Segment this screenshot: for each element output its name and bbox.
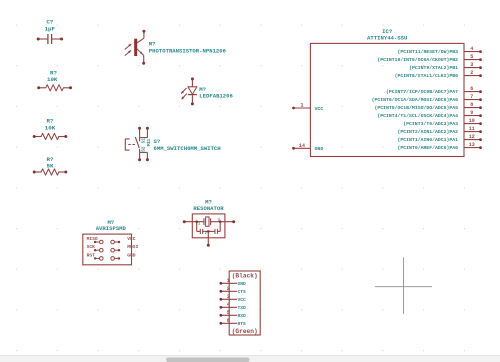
svg-text:(PCINT5/OC1B/MISO/DO/ADC5)PA5: (PCINT5/OC1B/MISO/DO/ADC5)PA5 [375, 105, 459, 111]
svg-text:RESONATOR: RESONATOR [193, 205, 224, 212]
svg-text:VCC: VCC [315, 106, 324, 112]
svg-text:13: 13 [469, 142, 475, 148]
svg-text:R?: R? [47, 117, 54, 124]
svg-text:TXD: TXD [238, 305, 247, 311]
svg-text:1µF: 1µF [45, 25, 56, 32]
svg-text:MOSI: MOSI [127, 244, 138, 250]
svg-text:3: 3 [227, 294, 230, 300]
svg-text:(PCINT11/RESET/DW)PB3: (PCINT11/RESET/DW)PB3 [398, 49, 459, 55]
svg-text:12: 12 [469, 134, 475, 140]
svg-text:(PCINT9/XTAL2)PB1: (PCINT9/XTAL2)PB1 [409, 65, 458, 71]
svg-text:RST: RST [87, 252, 96, 258]
svg-text:6: 6 [227, 318, 230, 324]
svg-text:(PCINT7/ICP/OC0B/ADC7)PA7: (PCINT7/ICP/OC0B/ADC7)PA7 [386, 89, 458, 95]
svg-text:(PCINT10/INT0/OC0A/CKOUT)PB2: (PCINT10/INT0/OC0A/CKOUT)PB2 [377, 57, 458, 63]
svg-text:7: 7 [470, 94, 473, 100]
svg-text:3: 3 [470, 62, 473, 68]
svg-text:(PCINT3/T0/ADC3)PA3: (PCINT3/T0/ADC3)PA3 [403, 121, 458, 127]
svg-text:1: 1 [227, 278, 230, 284]
svg-text:(PCINT8/XTAL1/CLKI)PB0: (PCINT8/XTAL1/CLKI)PB0 [395, 73, 458, 79]
svg-text:6: 6 [470, 86, 473, 92]
svg-text:GND: GND [127, 252, 136, 258]
svg-text:5: 5 [470, 54, 473, 60]
svg-text:VCC: VCC [127, 236, 136, 242]
svg-text:(PCINT2/AIN1/ADC2)PA2: (PCINT2/AIN1/ADC2)PA2 [398, 129, 459, 135]
svg-text:(PCINT1/AIN0/ADC1)PA1: (PCINT1/AIN0/ADC1)PA1 [398, 137, 459, 143]
svg-text:CTS: CTS [238, 289, 247, 295]
svg-text:10K: 10K [45, 124, 56, 131]
svg-text:9: 9 [470, 110, 473, 116]
svg-text:2: 2 [227, 286, 230, 292]
svg-text:RXD: RXD [238, 313, 247, 319]
svg-text:3: 3 [218, 219, 220, 223]
svg-text:5: 5 [227, 310, 230, 316]
svg-text:P$1: P$1 [147, 138, 152, 146]
svg-text:LEDFAB1206: LEDFAB1206 [199, 92, 233, 99]
svg-text:(Green): (Green) [232, 328, 258, 335]
svg-text:(PCINT6/OC1A/SDA/MOSI/ADC6)PA6: (PCINT6/OC1A/SDA/MOSI/ADC6)PA6 [372, 97, 458, 103]
svg-text:S2: S2 [143, 146, 147, 152]
svg-text:2: 2 [205, 232, 207, 236]
svg-text:GND: GND [238, 281, 247, 287]
svg-text:AVRISPSMD: AVRISPSMD [96, 225, 127, 232]
svg-text:RTS: RTS [238, 321, 247, 327]
svg-text:GND: GND [315, 146, 324, 152]
svg-text:(PCINT0/AREF/ADC0)PA0: (PCINT0/AREF/ADC0)PA0 [398, 145, 459, 151]
svg-text:1: 1 [300, 103, 303, 109]
svg-text:10: 10 [469, 118, 475, 124]
svg-text:1: 1 [198, 223, 200, 227]
svg-text:8: 8 [470, 102, 473, 108]
svg-text:SCK: SCK [87, 244, 96, 250]
svg-text:ATTINY44-SSU: ATTINY44-SSU [367, 35, 407, 42]
svg-text:2: 2 [470, 70, 473, 76]
svg-text:S1: S1 [143, 138, 147, 144]
svg-text:4: 4 [470, 46, 473, 52]
svg-text:VCC: VCC [238, 297, 247, 303]
svg-text:4: 4 [227, 302, 230, 308]
svg-text:11: 11 [469, 126, 475, 132]
svg-text:10K: 10K [47, 76, 58, 83]
svg-text:MISO: MISO [87, 236, 98, 242]
svg-text:PHOTOTRANSISTOR-NPN1206: PHOTOTRANSISTOR-NPN1206 [149, 47, 227, 54]
svg-text:14: 14 [299, 143, 305, 149]
svg-text:5K: 5K [47, 162, 54, 169]
svg-text:6MM_SWITCH6MM_SWITCH: 6MM_SWITCH6MM_SWITCH [154, 145, 221, 152]
svg-text:(Black): (Black) [232, 273, 258, 280]
svg-text:(PCINT4/T1/SCL/USCK/ADC4)PA4: (PCINT4/T1/SCL/USCK/ADC4)PA4 [377, 113, 458, 119]
